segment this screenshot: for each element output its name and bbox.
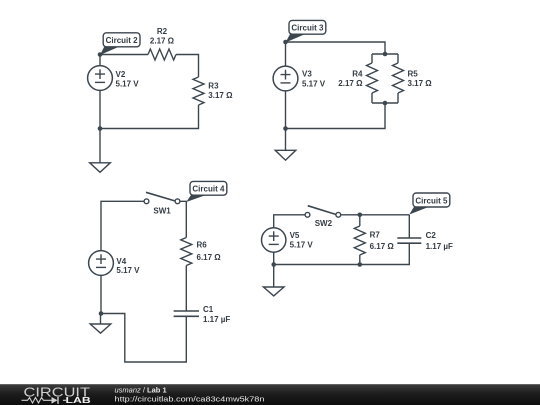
svg-text:http://circuitlab.com/ca83c4mw: http://circuitlab.com/ca83c4mw5k78n (115, 394, 265, 403)
label C1 (203, 305, 214, 314)
junction: R7 bottom node (358, 262, 363, 267)
label V5 value 5.17 V (290, 241, 314, 250)
wire: V3 leads (285, 42, 287, 129)
wire: circuit3 top rail (286, 42, 386, 54)
capacitor C2 (397, 238, 421, 243)
wire: R3 bottom to circuit2 bottom rail (100, 105, 199, 129)
wire: V2 top lead to node A (99, 55, 101, 66)
wire: parallel bottom bar (372, 102, 398, 104)
svg-text:R4: R4 (352, 69, 363, 78)
junction: circuit4 ground node (99, 311, 104, 316)
logo CIRCUIT wordmark (24, 386, 91, 400)
svg-text:Circuit 5: Circuit 5 (415, 196, 448, 205)
svg-text:Circuit 3: Circuit 3 (291, 24, 324, 33)
label R6 (197, 240, 208, 249)
label R2 (157, 27, 168, 36)
svg-text:5.17 V: 5.17 V (116, 266, 140, 275)
svg-text:C1: C1 (203, 305, 214, 314)
junction: circuit3 bottom node (283, 126, 288, 131)
svg-text:1.17 µF: 1.17 µF (203, 315, 230, 324)
label V4 (116, 257, 126, 266)
label R4 (352, 69, 363, 78)
svg-text:5.17 V: 5.17 V (290, 241, 314, 250)
label R5 value 3.17 Ω (408, 79, 433, 88)
footer title: usmanz / Lab 1 (115, 386, 167, 395)
wire: node A to R2 left lead (100, 54, 148, 56)
svg-text:3.17 Ω: 3.17 Ω (408, 79, 433, 88)
resistor R3 (193, 77, 204, 105)
svg-text:R2: R2 (157, 27, 168, 36)
logo resistor-diode squiggle (22, 397, 67, 404)
svg-text:R7: R7 (370, 230, 381, 239)
ground: circuit4 (90, 314, 111, 334)
resistor R2 (148, 49, 176, 60)
svg-text:3.17 Ω: 3.17 Ω (208, 91, 233, 100)
label R3 (208, 82, 219, 91)
voltage source V4 (89, 251, 114, 276)
ground: circuit2 (90, 129, 111, 173)
junction: circuit5 ground node (271, 262, 276, 267)
label badge Circuit 2 (100, 33, 140, 55)
voltage source V2 (88, 66, 113, 91)
label R5 (408, 69, 419, 78)
resistor R6 (181, 238, 192, 266)
label SW1 (153, 207, 171, 216)
label V3 value 5.17 V (302, 80, 326, 89)
label V2 (116, 70, 126, 79)
label R3 value 3.17 Ω (208, 91, 233, 100)
svg-text:2.17 Ω: 2.17 Ω (338, 79, 363, 88)
wire: C2 bottom to circuit5 bottom rail (274, 243, 410, 264)
label SW2 (315, 219, 333, 228)
svg-text:C2: C2 (426, 231, 437, 240)
wire: R6 bottom to C1 top plate (185, 266, 187, 312)
svg-text:2.17 Ω: 2.17 Ω (150, 37, 175, 46)
label V5 (290, 231, 300, 240)
svg-text:6.17 Ω: 6.17 Ω (197, 253, 222, 262)
svg-text:usmanz / Lab 1: usmanz / Lab 1 (115, 386, 167, 395)
resistor R4 (367, 54, 378, 103)
junction: R7 top node (358, 213, 363, 218)
junction: parallel bottom node (383, 101, 388, 106)
svg-text:V2: V2 (116, 70, 126, 79)
label R6 value 6.17 Ω (197, 253, 222, 262)
svg-text:V3: V3 (302, 70, 312, 79)
logo LAB wordmark (66, 395, 91, 405)
wire: parallel top bar (372, 53, 398, 55)
label R7 value 6.17 Ω (370, 242, 395, 251)
svg-text:SW1: SW1 (153, 207, 171, 216)
ground: circuit3 (275, 129, 296, 161)
switch SW1 (144, 192, 180, 203)
svg-text:LAB: LAB (66, 395, 91, 405)
svg-text:Circuit 4: Circuit 4 (192, 185, 225, 194)
junction: parallel top node (383, 52, 388, 57)
label C2 (426, 231, 437, 240)
wire: C2 top lead (408, 215, 410, 238)
label R7 (370, 230, 381, 239)
svg-text:5.17 V: 5.17 V (302, 80, 326, 89)
node A dot (circuit2 top-left) (98, 52, 103, 57)
junction: circuit2 bottom node (98, 126, 103, 131)
voltage source V5 (262, 228, 286, 252)
wire: R2 right to R3 top lead (176, 55, 199, 78)
label badge Circuit 5 (409, 193, 450, 215)
node dot circuit3 top-left (283, 40, 288, 45)
label R4 value 2.17 Ω (338, 79, 363, 88)
wire: V4 bottom lead (100, 275, 102, 313)
label V3 (302, 70, 312, 79)
wire: SW1 to R6 top lead (180, 201, 186, 237)
svg-text:1.17 µF: 1.17 µF (426, 242, 453, 251)
label V2 value 5.17 V (116, 80, 140, 89)
label V4 value 5.17 V (116, 266, 140, 275)
label C1 value 1.17 µF (203, 315, 230, 324)
wire: V4 top lead and top rail to SW1 (101, 201, 144, 250)
svg-text:Circuit 2: Circuit 2 (106, 36, 139, 45)
svg-text:R6: R6 (197, 240, 208, 249)
ground: circuit5 (263, 265, 284, 296)
wire: V5 bottom lead (273, 252, 275, 264)
svg-text:5.17 V: 5.17 V (116, 80, 140, 89)
svg-text:SW2: SW2 (315, 219, 333, 228)
label C2 value 1.17 µF (426, 242, 453, 251)
svg-text:R5: R5 (408, 69, 419, 78)
wire: V2 bottom lead (99, 91, 101, 129)
svg-text:V5: V5 (290, 231, 300, 240)
svg-text:6.17 Ω: 6.17 Ω (370, 242, 395, 251)
svg-text:R3: R3 (208, 82, 219, 91)
resistor R7 (354, 215, 365, 265)
svg-text:V4: V4 (116, 257, 126, 266)
capacitor C1 (174, 311, 199, 316)
wire: V5 top lead and rail to SW2 (274, 215, 305, 228)
label badge Circuit 4 (186, 181, 227, 202)
footer url (115, 394, 265, 403)
switch SW2 (305, 206, 341, 218)
footer bar (0, 384, 540, 405)
wire: SW2 to C2 corner (341, 214, 410, 216)
wire: parallel bottom to circuit3 bottom rail (286, 103, 386, 129)
wire: C1 bottom to circuit4 bottom rail (101, 314, 186, 363)
label badge Circuit 3 (286, 20, 326, 42)
resistor R5 (393, 54, 404, 103)
voltage source V3 (273, 66, 298, 91)
label R2 value 2.17 Ω (150, 37, 175, 46)
